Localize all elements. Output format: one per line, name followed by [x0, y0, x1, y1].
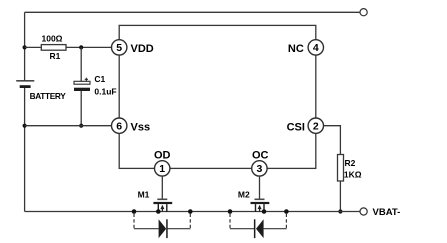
label VBAT-: [373, 207, 401, 218]
wire: R1 to pin5 VDD: [66, 46, 112, 48]
pin 4 (NC): [308, 40, 323, 55]
svg-text:VDD: VDD: [131, 43, 154, 55]
label R2: [345, 158, 356, 168]
pin 5 (VDD): [112, 40, 127, 55]
pin 1 (OD): [155, 161, 170, 176]
node: junction left rail / VDD wire: [23, 45, 27, 49]
label BATTERY: [30, 91, 67, 101]
label Vss: [131, 122, 151, 134]
pin 2 (CSI): [308, 118, 323, 133]
svg-text:C1: C1: [94, 74, 105, 84]
battery BT1: [16, 80, 34, 88]
svg-text:Vss: Vss: [131, 122, 151, 134]
label VDD: [131, 43, 154, 55]
node: M2 source junction on rail: [262, 209, 267, 214]
wire: left rail upper segment (top rail down to battery +): [24, 12, 26, 80]
svg-text:4: 4: [313, 42, 319, 54]
label OC: [252, 149, 269, 161]
svg-text:100Ω: 100Ω: [42, 33, 63, 43]
wire: left rail lower segment (battery - to bottom rail): [24, 88, 26, 212]
label R1: [50, 51, 61, 61]
node: junction C1 top / VDD wire: [79, 45, 83, 49]
terminal VBAT+ open circle top right: [360, 9, 367, 16]
wire: top rail (battery + to VBAT+ terminal): [25, 11, 361, 13]
svg-text:1KΩ: 1KΩ: [344, 170, 362, 180]
label 1Kohm: [344, 170, 362, 180]
wire: C1 bottom lead: [80, 91, 82, 126]
label CSI: [287, 122, 305, 134]
wire: C1 top lead: [80, 47, 82, 81]
diode D1 (M1 body diode, dashed links): [134, 214, 190, 239]
svg-text:BATTERY: BATTERY: [30, 91, 67, 101]
wire: VDD feed (left rail to R1): [25, 46, 42, 48]
node: junction left rail / Vss wire: [23, 124, 27, 128]
label C1: [94, 74, 105, 84]
terminal VBAT- open circle: [360, 208, 367, 215]
svg-text:M2: M2: [238, 189, 250, 199]
pin 3 (OC): [252, 161, 267, 176]
label M1: [138, 189, 150, 199]
svg-text:OC: OC: [252, 149, 269, 161]
svg-text:1: 1: [159, 163, 165, 175]
svg-text:R2: R2: [345, 158, 356, 168]
node: junction R2 / bottom rail: [338, 209, 342, 213]
svg-text:OD: OD: [154, 149, 171, 161]
wire: gate lead pin1 to M1: [161, 176, 163, 199]
transistor M1: [153, 199, 172, 213]
svg-text:6: 6: [116, 121, 122, 133]
wire: pin2 CSI to R2 top: [323, 126, 340, 155]
svg-text:0.1uF: 0.1uF: [94, 87, 116, 97]
wire: bottom rail (battery - to VBAT- terminal): [25, 211, 361, 213]
label 0.1uF: [94, 87, 116, 97]
label OD: [154, 149, 171, 161]
node: D2 anode tap on rail: [284, 209, 289, 214]
node: D1 cathode tap on rail: [188, 209, 193, 214]
IC body U1: [119, 25, 316, 168]
resistor R2: [338, 155, 344, 182]
svg-text:2: 2: [313, 121, 319, 133]
node: D2 cathode tap on rail: [228, 209, 233, 214]
wire: gate lead pin3 to M2: [259, 176, 261, 199]
svg-text:CSI: CSI: [287, 122, 305, 134]
label 100ohm: [42, 33, 63, 43]
svg-text:VBAT-: VBAT-: [373, 207, 401, 218]
node: D1 anode tap on rail: [132, 209, 137, 214]
wire: R2 bottom to bottom rail: [339, 181, 341, 212]
pin 6 (Vss): [112, 118, 127, 133]
diode D2 (M2 body diode, dashed links): [230, 214, 286, 239]
wire: Vss feed (left rail to pin6): [25, 125, 112, 127]
svg-text:3: 3: [256, 163, 262, 175]
transistor M2: [251, 199, 270, 213]
resistor R1: [41, 45, 66, 51]
svg-text:NC: NC: [288, 43, 304, 55]
label M2: [238, 189, 250, 199]
label NC: [288, 43, 304, 55]
node: M1 source junction on rail: [156, 209, 161, 214]
svg-text:R1: R1: [50, 51, 61, 61]
capacitor C1 (polarized): [74, 78, 90, 91]
node: junction C1 bottom / Vss wire: [79, 124, 83, 128]
svg-text:5: 5: [116, 42, 122, 54]
svg-text:M1: M1: [138, 189, 150, 199]
